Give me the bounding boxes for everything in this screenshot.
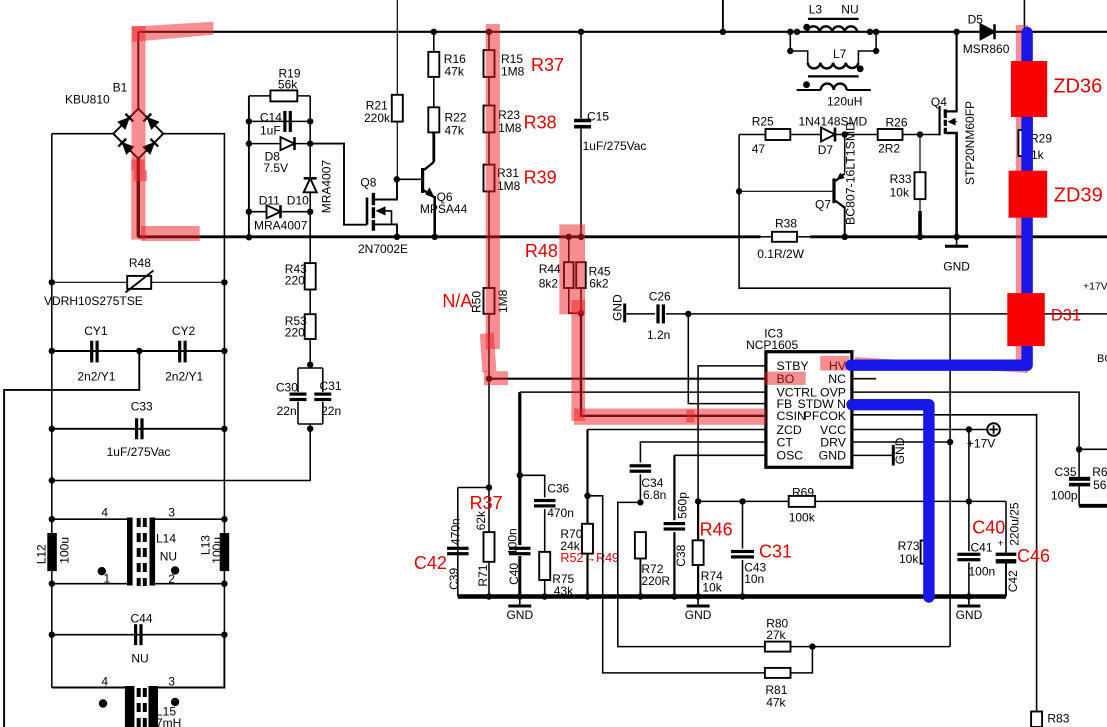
Q8 gate bar — [366, 198, 369, 225]
svg-text:6k2: 6k2 — [589, 277, 609, 291]
svg-text:R33: R33 — [890, 172, 912, 186]
wire L15 pin 3 — [153, 635, 224, 688]
svg-text:56k: 56k — [278, 78, 298, 92]
svg-text:L14: L14 — [156, 532, 176, 546]
svg-text:C33: C33 — [131, 399, 153, 413]
svg-text:120uH: 120uH — [827, 95, 862, 109]
svg-text:D5: D5 — [968, 13, 984, 27]
svg-text:L3: L3 — [809, 3, 823, 17]
Q4 drain to top bus — [947, 32, 957, 112]
capacitor C43 — [739, 498, 745, 504]
resistor R44 — [566, 234, 572, 240]
Q6 emitter lead — [433, 196, 436, 237]
wire bridge - output down to mid bus — [137, 159, 140, 237]
diode D5 MSR860 — [981, 24, 995, 39]
svg-text:47: 47 — [752, 142, 766, 156]
diode D31 red box — [1007, 293, 1045, 346]
wire C40 column thick part — [518, 475, 521, 545]
svg-text:D10: D10 — [287, 194, 309, 208]
Q6 emitter diagonal — [424, 191, 435, 198]
capacitor CY2 — [178, 341, 181, 363]
wire VCC line to +17V — [852, 429, 988, 431]
svg-text:1uF/275Vac: 1uF/275Vac — [107, 445, 171, 459]
svg-text:NC: NC — [828, 372, 846, 386]
wire from top edge through R21 — [396, 0, 398, 95]
svg-text:MRA4007: MRA4007 — [254, 219, 308, 233]
svg-text:1uF: 1uF — [260, 124, 281, 138]
wire earth line to bottom left — [4, 351, 139, 727]
svg-text:R37: R37 — [531, 55, 564, 75]
highlight pink along ZD column — [1016, 25, 1028, 370]
svg-text:CY1: CY1 — [84, 324, 108, 338]
svg-text:C31: C31 — [320, 379, 342, 393]
capacitor C39 — [458, 488, 489, 597]
svg-text:NU: NU — [131, 652, 148, 666]
Q7 collector diagonal — [836, 201, 845, 208]
svg-text:100n: 100n — [505, 528, 519, 555]
svg-text:6.8n: 6.8n — [643, 488, 666, 502]
svg-text:ZD36: ZD36 — [1053, 75, 1102, 97]
svg-text:R71: R71 — [476, 564, 490, 586]
svg-text:R22: R22 — [445, 111, 467, 125]
inductor L7 parallel winding — [787, 29, 793, 35]
svg-text:220u/25: 220u/25 — [1008, 502, 1022, 546]
diode D11 — [249, 211, 310, 213]
Q8 body stub — [385, 211, 392, 225]
svg-text:GND: GND — [506, 608, 533, 622]
svg-text:220k: 220k — [364, 111, 391, 125]
svg-text:NU: NU — [841, 3, 858, 17]
svg-text:2n2/Y1: 2n2/Y1 — [77, 369, 115, 383]
wire R38 right lead — [797, 236, 810, 238]
svg-text:47k: 47k — [766, 695, 786, 709]
svg-text:100u: 100u — [210, 537, 224, 564]
svg-text:CSIN: CSIN — [777, 409, 806, 423]
wire OSC column upper — [673, 455, 675, 520]
wire L14 pin 3 — [153, 518, 225, 520]
resistor R21 — [392, 95, 403, 122]
svg-text:1k: 1k — [1031, 148, 1045, 162]
svg-text:56: 56 — [1093, 478, 1107, 492]
svg-text:R73: R73 — [898, 539, 920, 553]
svg-text:220: 220 — [285, 273, 305, 287]
svg-text:470n: 470n — [449, 518, 463, 545]
svg-text:0.1R/2W: 0.1R/2W — [757, 247, 804, 261]
svg-text:GND: GND — [893, 437, 907, 464]
svg-text:MSR860: MSR860 — [963, 42, 1010, 56]
wire GND pin to sideways ground — [852, 454, 893, 456]
svg-text:C31: C31 — [759, 542, 792, 562]
svg-text:C26: C26 — [649, 290, 671, 304]
svg-text:MRA4007: MRA4007 — [320, 160, 334, 214]
wire PFCOK line down to R83 — [852, 415, 1037, 712]
resistor R38 shunt — [772, 232, 797, 242]
svg-text:R48: R48 — [525, 241, 558, 261]
diode D7 1N4148SMD — [790, 134, 821, 136]
op-amp IC3 NCP1605 controller box — [766, 352, 852, 468]
svg-text:560p: 560p — [676, 492, 690, 519]
wire top bus (+rail from bridge to D5) — [139, 31, 1107, 33]
wire ZCD line — [588, 429, 766, 431]
highlight blue STDWN path — [852, 405, 929, 597]
svg-text:C14: C14 — [260, 111, 282, 125]
power symbol +17V — [987, 423, 1000, 436]
svg-text:100n: 100n — [969, 565, 996, 579]
Q7 emitter lead from D7 node — [844, 135, 846, 173]
svg-text:GND: GND — [819, 449, 846, 463]
svg-text:ZD39: ZD39 — [1054, 184, 1103, 206]
svg-text:OSC: OSC — [777, 449, 804, 463]
resistor R33 — [919, 135, 921, 173]
Q8 source — [375, 224, 398, 236]
wire L14 pin 2 — [153, 583, 225, 585]
svg-text:C44: C44 — [131, 612, 153, 626]
ground symbol sideways at C26 — [623, 304, 626, 323]
svg-text:C46: C46 — [1017, 546, 1050, 566]
wire DRV to R25 column — [739, 135, 950, 443]
resistor R26 — [845, 134, 878, 136]
ground at Q4 source — [953, 234, 959, 240]
svg-text:1: 1 — [104, 572, 111, 586]
wire right column of R19 block — [309, 96, 311, 237]
capacitor C15 — [578, 29, 584, 35]
resistor R74 — [695, 498, 701, 504]
wire left AC column — [51, 134, 53, 688]
svg-text:R46: R46 — [700, 519, 733, 539]
svg-text:NU: NU — [160, 550, 177, 564]
svg-text:R29: R29 — [1030, 132, 1052, 146]
svg-text:22n: 22n — [277, 404, 297, 418]
Q6 base bar — [421, 168, 424, 193]
svg-text:Q8: Q8 — [360, 176, 376, 190]
resistor R29 (partly hidden) — [1018, 130, 1030, 156]
wire FB column to IC — [688, 314, 766, 404]
svg-text:BO: BO — [1097, 353, 1107, 365]
resistor R45 — [578, 234, 584, 240]
wire C34 node to R80 below — [618, 502, 765, 646]
svg-text:STP20NM60FP: STP20NM60FP — [963, 101, 977, 185]
svg-text:C42: C42 — [1006, 570, 1020, 592]
inductor L13 — [220, 533, 230, 571]
svg-text:43k: 43k — [554, 584, 574, 598]
svg-text:KBU810: KBU810 — [65, 93, 110, 107]
wire DRV line — [852, 441, 950, 443]
wire C40 column thick upper part — [518, 392, 521, 475]
ground under R74 — [697, 597, 699, 607]
svg-text:10k: 10k — [890, 185, 910, 199]
wire Q7 base line — [738, 190, 834, 192]
wire mid ground bus left of R38 — [138, 235, 761, 238]
resistor R50 — [488, 191, 490, 288]
resistor R72 — [635, 532, 646, 558]
wire STBY to R74 column — [698, 366, 766, 502]
wire NC stub — [852, 378, 876, 380]
resistor R69 — [789, 496, 815, 507]
bridge rectifier B1 — [113, 109, 163, 159]
ground under C40 — [519, 597, 521, 607]
resistor R23 — [488, 77, 490, 106]
Q7 emitter diagonal — [836, 174, 845, 182]
highlight pink over bridge path — [131, 22, 1028, 425]
capacitor C33 — [52, 428, 225, 430]
wire CSIN sense line to IC — [581, 313, 766, 416]
svg-text:1M8: 1M8 — [498, 121, 522, 135]
wire Q8 drain to Q6 base — [397, 178, 423, 180]
svg-text:GND: GND — [956, 608, 983, 622]
svg-text:2N7002E: 2N7002E — [358, 242, 408, 256]
svg-text:GND: GND — [943, 260, 970, 274]
svg-text:27k: 27k — [766, 628, 786, 642]
svg-text:2n2/Y1: 2n2/Y1 — [165, 369, 203, 383]
svg-text:B1: B1 — [113, 81, 128, 95]
varistor R48 — [52, 281, 225, 283]
zener diode D8 — [249, 143, 310, 145]
svg-text:R37: R37 — [470, 493, 503, 513]
svg-text:220R: 220R — [641, 574, 670, 588]
wire OVP line to C35 — [852, 392, 1079, 447]
zener ZD39 red box — [1009, 171, 1048, 218]
svg-text:62k: 62k — [474, 510, 488, 530]
wire signal ground bus — [458, 594, 1006, 598]
capacitor C14 — [249, 120, 310, 122]
svg-text:D31: D31 — [1051, 307, 1081, 325]
wire mid ground bus right of R38 — [810, 235, 1107, 238]
wire from top edge at x=723 — [722, 0, 724, 32]
svg-text:2: 2 — [168, 572, 175, 586]
Q6 collector diagonal — [424, 162, 434, 170]
svg-text:R39: R39 — [524, 168, 557, 188]
svg-text:C38: C38 — [674, 544, 688, 566]
wire C26/FB node line to right edge — [666, 313, 1107, 315]
svg-text:CY2: CY2 — [172, 324, 196, 338]
Q6 collector lead — [432, 132, 435, 162]
svg-text:DRV: DRV — [820, 435, 847, 449]
svg-text:1M8: 1M8 — [501, 65, 525, 79]
capacitor C41 — [968, 430, 970, 552]
svg-text:10k: 10k — [702, 581, 722, 595]
wire DRV down to R80 node — [949, 442, 951, 647]
svg-text:R48: R48 — [129, 256, 151, 270]
highlight pink over R44/R45 and CSIN path — [559, 224, 585, 314]
resistor R15 — [486, 29, 492, 35]
svg-text:C40: C40 — [972, 517, 1005, 537]
svg-text:N/A: N/A — [442, 291, 472, 311]
wire R19 block left column — [248, 96, 250, 237]
node BO junction — [486, 376, 492, 382]
resistor R31 — [488, 132, 490, 164]
inductor L12 — [47, 533, 57, 571]
overline under L3 NU — [808, 18, 859, 20]
svg-text:NCP1605: NCP1605 — [746, 338, 798, 352]
wire D8 node to Q8 gate — [310, 144, 367, 225]
resistors R80 R81 — [765, 642, 791, 652]
svg-text:1.2n: 1.2n — [647, 328, 670, 342]
wire L14 pin 1 — [52, 583, 128, 585]
svg-text:R69: R69 — [792, 485, 814, 499]
capacitor C44 NU — [52, 634, 225, 636]
separator line — [808, 75, 859, 77]
svg-text:10k: 10k — [899, 552, 919, 566]
wire BO line — [489, 378, 766, 380]
svg-text:47k: 47k — [445, 65, 465, 79]
svg-text:R38: R38 — [524, 113, 557, 133]
zener ZD36 red box — [1011, 61, 1047, 117]
svg-text:7.5V: 7.5V — [263, 161, 288, 175]
capacitor C40 — [509, 547, 531, 550]
svg-text:220: 220 — [285, 325, 305, 339]
svg-text:L7: L7 — [833, 47, 847, 61]
svg-text:1uF/275Vac: 1uF/275Vac — [583, 139, 647, 153]
highlight blue HV supply path — [851, 33, 1027, 366]
svg-text:D7: D7 — [818, 143, 834, 157]
highlight pink over R15/R23/R31 divider — [486, 24, 500, 349]
svg-text:GND: GND — [685, 608, 712, 622]
ground under C41 — [968, 597, 970, 607]
svg-text:+17V: +17V — [967, 437, 995, 451]
inductor 120uH winding — [797, 89, 871, 91]
capacitor C38 — [664, 522, 686, 525]
wire OSC line — [674, 454, 766, 456]
svg-text:Q7: Q7 — [815, 198, 831, 212]
resistor R73 (mostly hidden by blue) — [926, 501, 928, 540]
svg-text:R83: R83 — [1047, 712, 1069, 726]
svg-text:C42: C42 — [414, 553, 447, 573]
wire VCTRL line to C40 column — [520, 391, 766, 393]
svg-text:10n: 10n — [744, 572, 764, 586]
svg-text:GND: GND — [611, 294, 625, 321]
svg-text:R25: R25 — [752, 114, 774, 128]
svg-text:Q4: Q4 — [931, 95, 947, 109]
svg-text:MPSA44: MPSA44 — [420, 202, 468, 216]
resistor R22 — [433, 77, 435, 107]
wire CT line — [640, 442, 766, 463]
L14 winding bars and core — [127, 518, 133, 586]
Q4 source to ground — [947, 133, 957, 237]
wire R44/R45 bottoms joined — [569, 288, 581, 313]
capacitor C34 — [630, 464, 652, 467]
svg-text:7mH: 7mH — [156, 716, 181, 727]
capacitor C35 — [1076, 446, 1082, 452]
node CY midpoint to earth — [136, 348, 142, 354]
capacitors C30 C31 pair — [307, 362, 313, 368]
wire bridge + output up to top bus — [137, 32, 139, 109]
resistor R19 — [249, 95, 310, 97]
Q4 gate bar — [938, 106, 940, 136]
wire C30/C31 return to left column — [52, 429, 310, 481]
svg-text:2R2: 2R2 — [878, 142, 900, 156]
capacitor C26 — [626, 313, 655, 315]
wire R70 node to R81 below — [588, 496, 765, 673]
svg-text:47k: 47k — [445, 124, 465, 138]
svg-text:R26: R26 — [886, 116, 908, 130]
wire R50 bottom through BO node to C39 node — [488, 314, 490, 488]
svg-text:D11: D11 — [259, 194, 280, 208]
wire +17V rail line — [698, 500, 1006, 502]
resistor R43 — [309, 237, 311, 365]
Q7 base bar — [832, 178, 835, 203]
highlight pink over HV and BO pin labels — [820, 356, 849, 371]
svg-text:C36: C36 — [547, 482, 569, 496]
svg-text:100p: 100p — [1051, 488, 1078, 502]
resistor R16 — [431, 29, 437, 35]
wire R38 left lead — [761, 236, 773, 238]
svg-text:C40: C40 — [507, 563, 521, 585]
wire bridge left AC to left column — [52, 133, 114, 135]
svg-text:+17V: +17V — [1083, 281, 1107, 293]
svg-text:C30: C30 — [276, 381, 298, 395]
svg-text:PFCOK: PFCOK — [804, 409, 847, 423]
svg-text:3: 3 — [168, 506, 175, 520]
Q8 drain — [375, 179, 398, 199]
svg-text:+: + — [998, 538, 1004, 550]
svg-text:100k: 100k — [789, 510, 816, 524]
ZD column wire above bus — [1023, 0, 1025, 32]
resistor R25 — [739, 134, 765, 136]
resistor R53 — [305, 314, 316, 339]
resistor R83 — [1031, 712, 1042, 727]
resistor R71 — [488, 488, 490, 597]
svg-text:1M8: 1M8 — [497, 179, 521, 193]
svg-text:22n: 22n — [321, 404, 341, 418]
transistor Q8 2N7002E — [394, 176, 400, 182]
resistor R70 — [584, 493, 590, 499]
svg-text:C39: C39 — [447, 568, 461, 590]
svg-text:C35: C35 — [1055, 465, 1077, 479]
svg-text:4: 4 — [101, 506, 108, 520]
inductor L3 — [807, 26, 857, 32]
svg-text:4: 4 — [101, 675, 108, 689]
svg-text:C41: C41 — [971, 541, 993, 555]
svg-text:3: 3 — [168, 675, 175, 689]
svg-text:C15: C15 — [587, 110, 609, 124]
svg-text:470n: 470n — [547, 506, 574, 520]
svg-text:R52→R49: R52→R49 — [560, 551, 619, 565]
svg-text:CT: CT — [777, 435, 794, 449]
wire bridge right AC down right column — [163, 134, 224, 635]
Q7 collector lead — [844, 206, 846, 237]
wire L15 pin 4 — [52, 687, 127, 689]
svg-text:R38: R38 — [775, 216, 797, 230]
svg-text:8k2: 8k2 — [539, 277, 559, 291]
capacitor C46 electrolytic — [1005, 501, 1007, 552]
svg-text:L12: L12 — [35, 544, 49, 564]
svg-text:R44: R44 — [539, 262, 561, 276]
svg-text:VDRH10S275TSE: VDRH10S275TSE — [44, 294, 143, 308]
wire ZCD column upper — [586, 430, 588, 524]
svg-text:100u: 100u — [58, 537, 72, 564]
capacitor CY1 — [52, 350, 225, 352]
capacitor C36 and resistor R75 — [517, 472, 523, 478]
wire L14 pin 4 — [52, 518, 128, 520]
svg-text:BC807-16LT1SMD: BC807-16LT1SMD — [844, 122, 858, 225]
